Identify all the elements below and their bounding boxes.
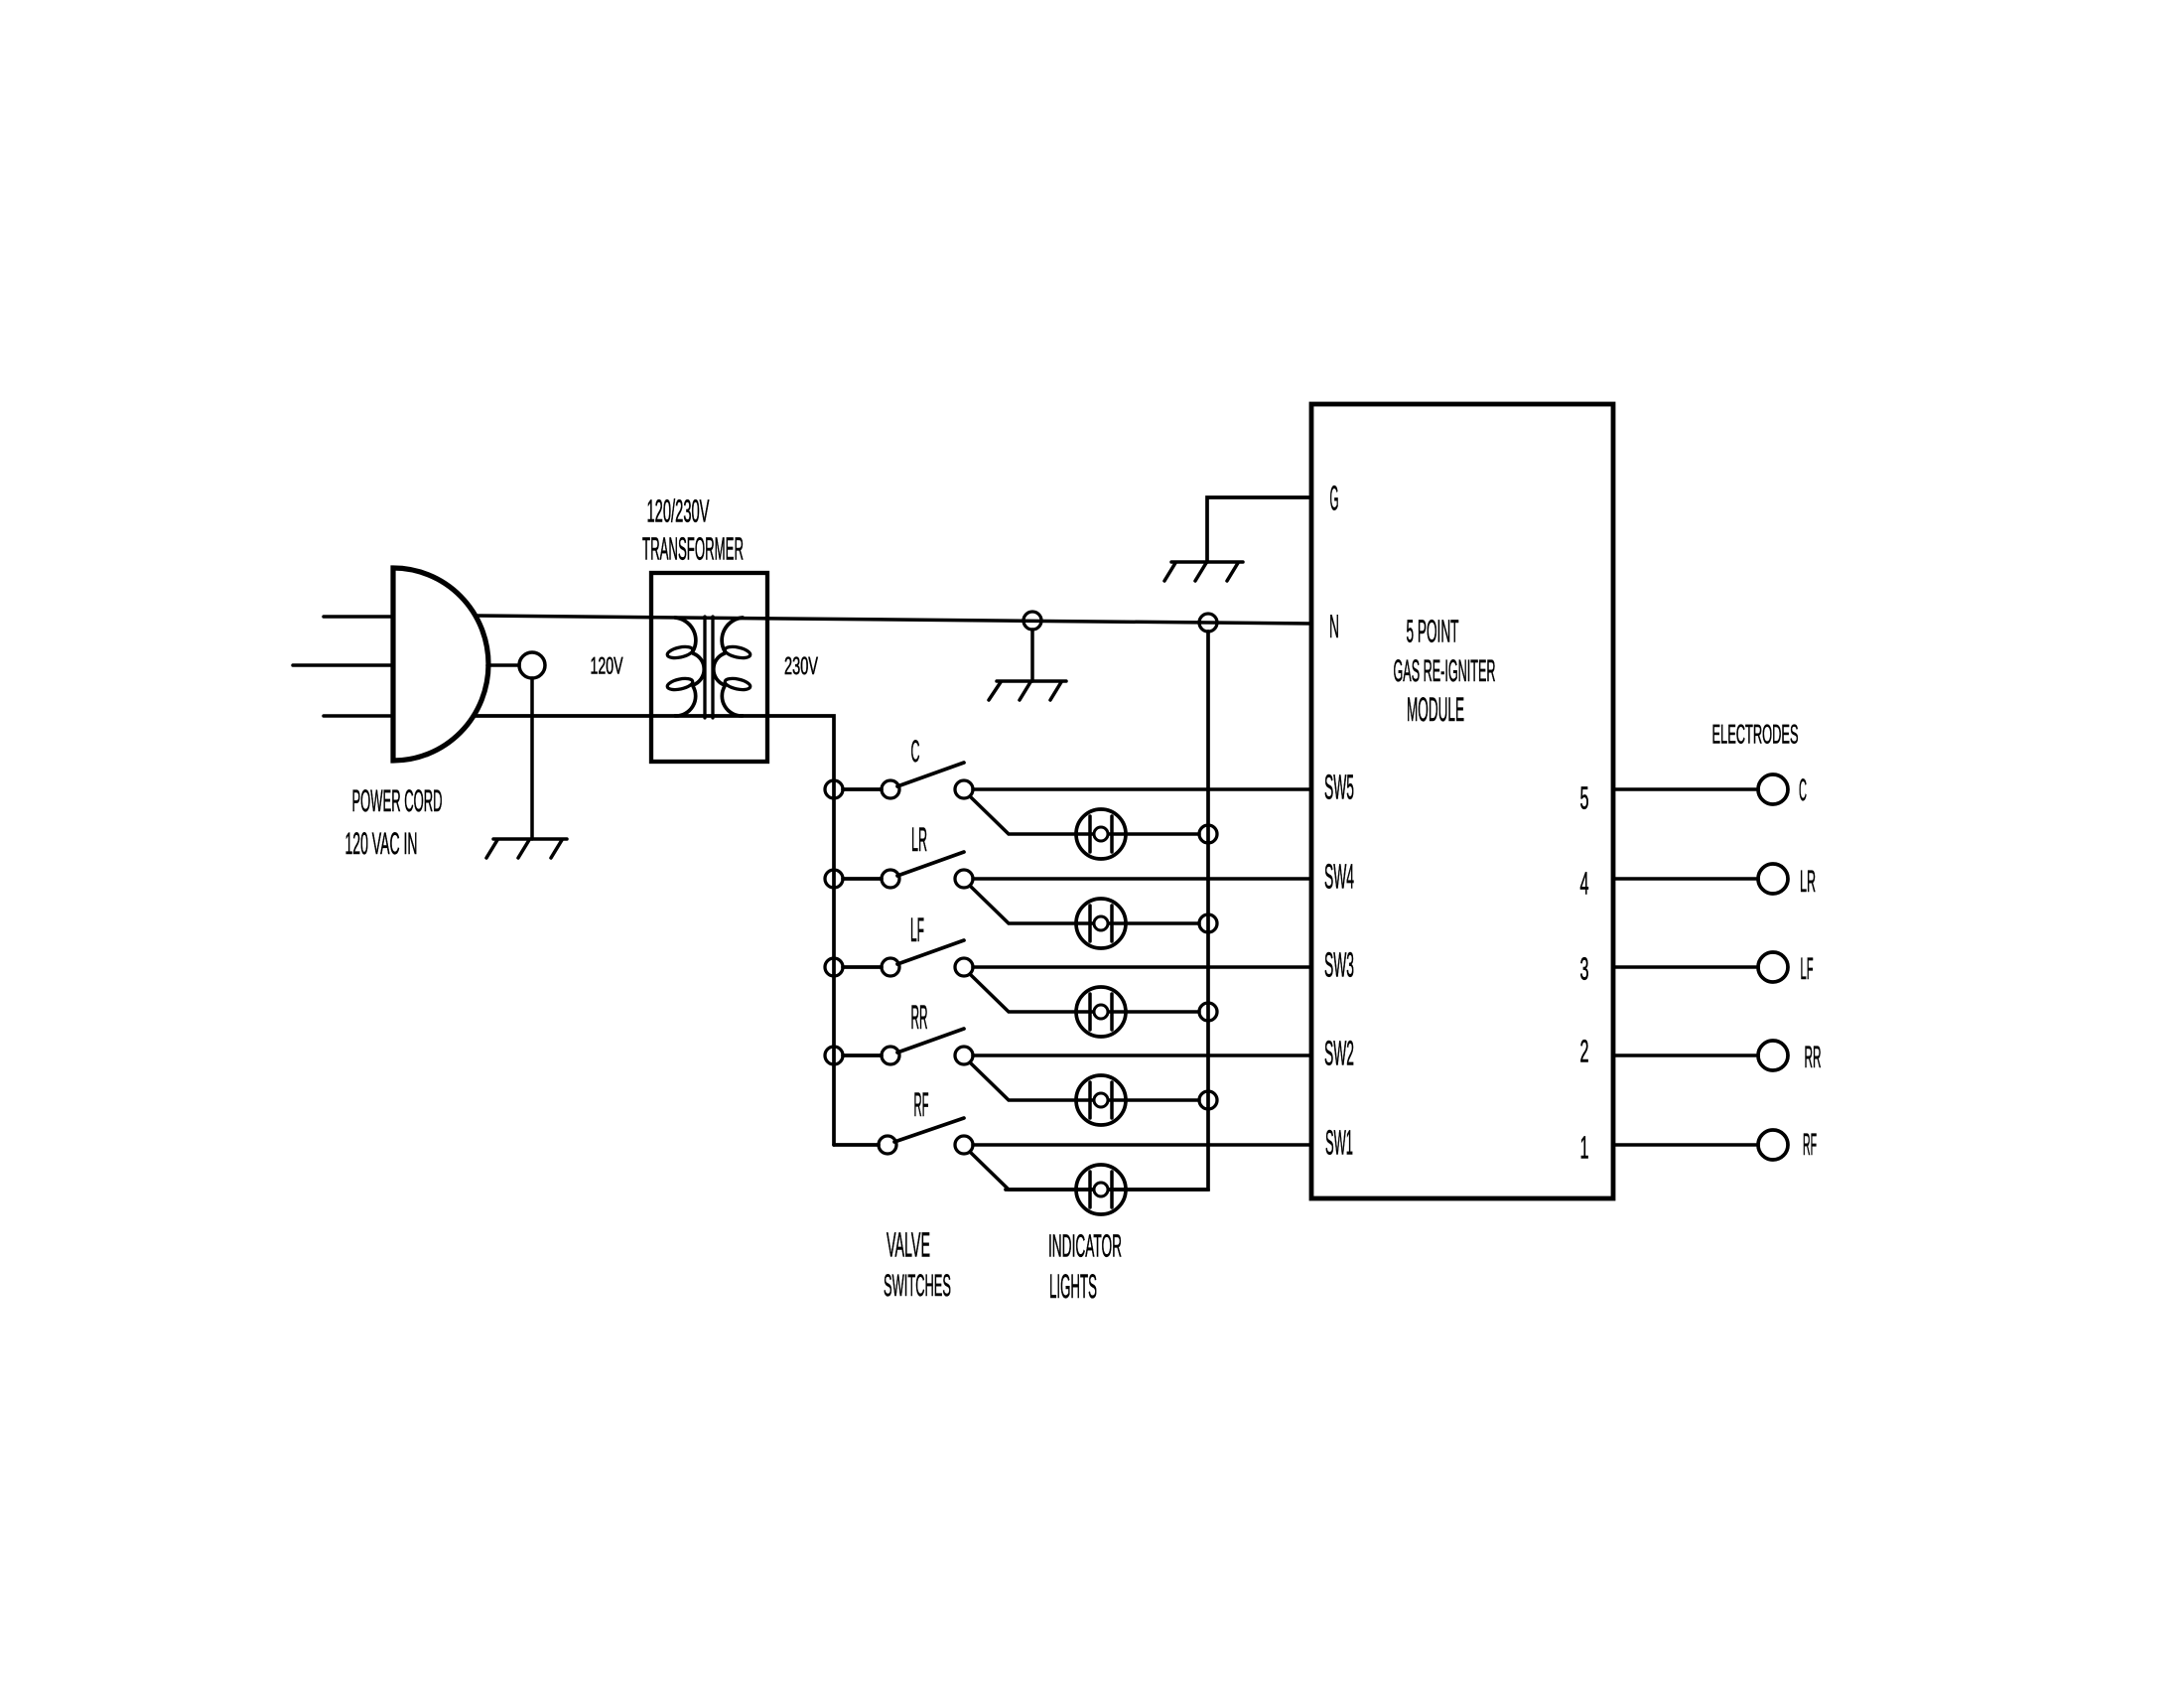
svg-text:LR: LR: [911, 821, 927, 859]
node: indicator bus junction: [1199, 825, 1217, 843]
plug prong wire top: [324, 615, 393, 619]
wire: switch RF to indicator light: [970, 1152, 1208, 1190]
5 point gas re-igniter module U1: [1311, 404, 1613, 1198]
plug prong wire bottom: [324, 714, 393, 718]
svg-text:LIGHTS: LIGHTS: [1049, 1268, 1097, 1306]
svg-text:120 VAC IN: 120 VAC IN: [345, 826, 418, 861]
svg-text:G: G: [1330, 480, 1339, 518]
wire: module pin 5 to electrode: [1613, 787, 1758, 791]
node: N wire junction to ground: [1024, 612, 1041, 630]
indicator light DS1: [1076, 1165, 1126, 1214]
wire: terminal down to ground: [530, 678, 534, 839]
svg-text:GAS RE-IGNITER: GAS RE-IGNITER: [1394, 653, 1496, 688]
wire: switch LF to module SW3: [973, 965, 1311, 969]
electrode RF: [1758, 1130, 1788, 1160]
wire: module pin 1 to electrode: [1613, 1143, 1758, 1147]
ground symbol at G: [1171, 560, 1243, 564]
svg-text:SWITCHES: SWITCHES: [884, 1268, 951, 1303]
svg-text:120/230V: 120/230V: [647, 493, 710, 529]
transformer primary coil: [675, 618, 704, 716]
svg-text:TRANSFORMER: TRANSFORMER: [642, 531, 744, 567]
svg-text:LF: LF: [1801, 951, 1814, 986]
svg-text:POWER CORD: POWER CORD: [352, 783, 443, 818]
plug ground terminal circle: [519, 652, 545, 678]
svg-text:2: 2: [1580, 1034, 1589, 1069]
svg-text:LR: LR: [1800, 864, 1816, 899]
indicator light DS4: [1076, 899, 1126, 948]
svg-text:1: 1: [1580, 1130, 1589, 1166]
svg-text:RR: RR: [1805, 1040, 1822, 1074]
svg-text:LF: LF: [910, 912, 924, 949]
wire: 230V line to switch bus: [474, 716, 834, 1145]
svg-text:N: N: [1329, 608, 1339, 644]
svg-text:5: 5: [1580, 780, 1589, 816]
indicator light DS2: [1076, 1075, 1126, 1125]
indicator light DS5: [1076, 809, 1126, 859]
valve switch RR: [825, 1047, 843, 1064]
wire: switch C to module SW5: [973, 787, 1311, 791]
svg-text:RF: RF: [1803, 1127, 1817, 1162]
svg-text:C: C: [911, 734, 920, 769]
electrode LF: [1758, 952, 1788, 982]
svg-text:MODULE: MODULE: [1407, 691, 1464, 729]
wire: indicator bus: [1006, 631, 1208, 1190]
electrode LR: [1758, 864, 1788, 894]
svg-text:230V: 230V: [784, 652, 818, 680]
svg-text:SW4: SW4: [1324, 858, 1354, 897]
wire: junction down to ground: [1030, 630, 1034, 681]
wire: module G to ground: [1207, 497, 1311, 562]
valve switch C: [825, 780, 843, 798]
wire: switch RR to indicator light: [970, 1062, 1199, 1100]
wire: switch LR to module SW4: [973, 877, 1311, 881]
wire: switch LR to indicator light: [970, 886, 1199, 923]
svg-text:SW2: SW2: [1324, 1035, 1354, 1073]
transformer core: [705, 617, 713, 718]
svg-text:ELECTRODES: ELECTRODES: [1712, 720, 1799, 750]
valve switch LR: [825, 870, 843, 888]
node: indicator bus junction: [1199, 1003, 1217, 1021]
svg-text:5 POINT: 5 POINT: [1407, 614, 1459, 649]
electrode C: [1758, 774, 1788, 804]
plug prong wire middle: [293, 663, 393, 667]
node: indicator bus junction: [1199, 914, 1217, 932]
indicator light DS3: [1076, 987, 1126, 1037]
svg-text:RF: RF: [914, 1086, 929, 1124]
transformer T1 box: [651, 573, 767, 762]
wire: hot line plug to module N: [476, 616, 1311, 624]
wire: module pin 2 to electrode: [1613, 1053, 1758, 1057]
electrode RR: [1758, 1041, 1788, 1070]
wire: module pin 4 to electrode: [1613, 877, 1758, 881]
svg-text:SW3: SW3: [1324, 946, 1354, 985]
wire: switch RR to module SW2: [973, 1053, 1311, 1057]
wire: plug to ground terminal: [487, 663, 519, 667]
transformer secondary coil: [714, 618, 743, 716]
ground symbol under power cord: [493, 837, 567, 841]
svg-text:3: 3: [1580, 951, 1589, 987]
node: N wire junction to indicator bus: [1199, 614, 1217, 631]
power cord plug P1: [393, 568, 488, 761]
svg-text:C: C: [1799, 772, 1807, 807]
wire: switch LF to indicator light: [970, 974, 1199, 1012]
wire: switch RF to module SW1: [973, 1143, 1311, 1147]
wire: module pin 3 to electrode: [1613, 965, 1758, 969]
svg-text:RR: RR: [911, 999, 928, 1037]
svg-text:SW1: SW1: [1325, 1124, 1353, 1163]
wire: switch C to indicator light: [970, 796, 1199, 834]
ground symbol mid circuit: [997, 679, 1066, 683]
svg-text:SW5: SW5: [1324, 769, 1354, 807]
svg-text:120V: 120V: [591, 653, 623, 680]
valve switch LF: [825, 958, 843, 976]
svg-text:INDICATOR: INDICATOR: [1048, 1228, 1122, 1264]
svg-text:4: 4: [1580, 866, 1589, 902]
node: indicator bus junction: [1199, 1091, 1217, 1109]
svg-text:VALVE: VALVE: [887, 1226, 930, 1265]
valve switch RF: [834, 1143, 879, 1147]
